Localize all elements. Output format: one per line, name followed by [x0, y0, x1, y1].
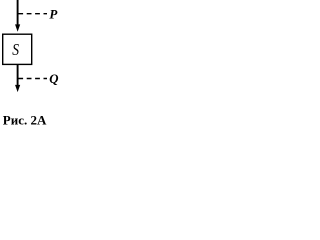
- box S: [3, 34, 32, 64]
- wire: [17, 64, 19, 86]
- arrowhead out: [15, 85, 20, 92]
- svg-text:Рис. 2А: Рис. 2А: [3, 112, 47, 127]
- node Q: [18, 78, 47, 80]
- arrowhead into S: [15, 24, 20, 31]
- wire: [17, 0, 19, 26]
- svg-text:P: P: [49, 6, 58, 21]
- svg-text:Q: Q: [49, 72, 58, 86]
- svg-text:S: S: [12, 41, 19, 60]
- node P: [18, 13, 47, 15]
